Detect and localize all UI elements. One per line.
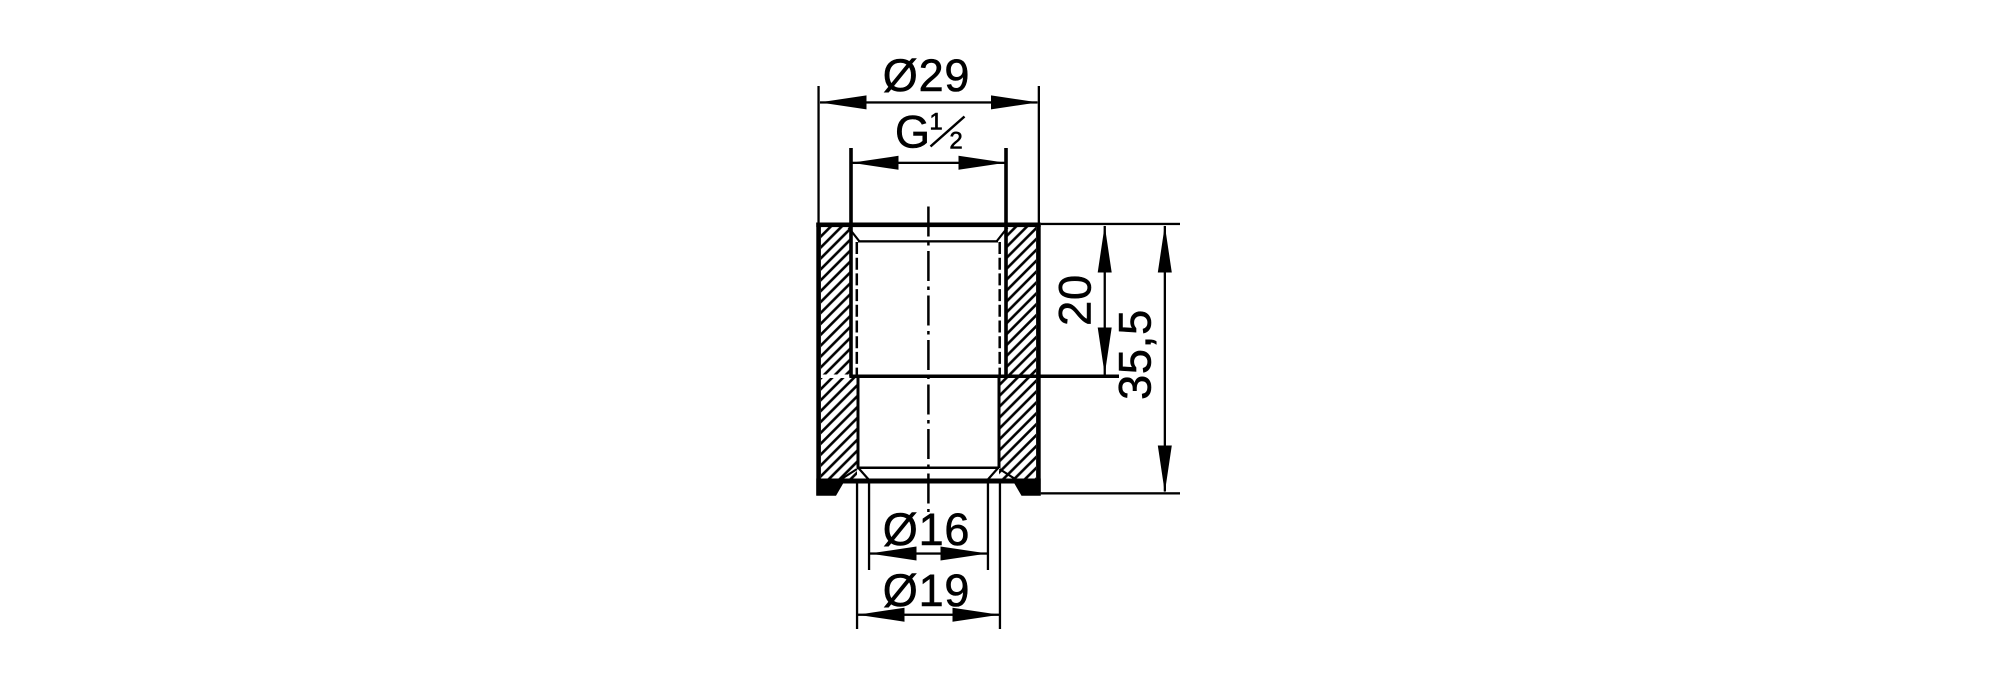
thread minor dashed line right xyxy=(998,242,1001,375)
svg-text:G: G xyxy=(895,107,930,158)
dim 35.5 arrow up xyxy=(1158,226,1172,273)
hatch right wall lower xyxy=(999,378,1036,479)
svg-text:Ø29: Ø29 xyxy=(883,50,970,101)
dim 35.5 line xyxy=(1164,226,1166,492)
svg-text:Ø16: Ø16 xyxy=(883,504,970,555)
bottom chamfer X left outer xyxy=(836,469,857,483)
thread major line left (with G1/2 extension above) xyxy=(849,148,853,377)
svg-text:1: 1 xyxy=(929,109,942,136)
dim 20 arrow down xyxy=(1098,328,1112,375)
dim 35.5 bottom extension line xyxy=(1041,492,1180,494)
dim Ø29 extension line right xyxy=(1038,86,1040,223)
lower bore wall left xyxy=(857,378,860,468)
dim 35.5 arrow down xyxy=(1158,446,1172,493)
body outer wall right xyxy=(1036,223,1041,496)
dim 20/35.5 top extension line xyxy=(1041,223,1180,225)
dim Ø16 extension line left xyxy=(868,484,870,571)
hatch left wall upper xyxy=(821,227,850,375)
lower bore wall right xyxy=(998,378,1001,468)
dim 20 line xyxy=(1104,226,1106,375)
dim Ø19 extension line left xyxy=(856,484,858,630)
dim Ø29 extension line left xyxy=(817,86,819,223)
thread bottom line with 20-dim extension xyxy=(849,375,1119,379)
thread chamfer diagonal left xyxy=(849,228,860,242)
thread chamfer edge line xyxy=(858,240,998,242)
bottom foot right xyxy=(1012,479,1041,496)
dim G1/2 fraction slash xyxy=(931,117,965,147)
dim Ø16 line xyxy=(870,552,987,554)
bottom chamfer X right outer xyxy=(1000,469,1021,483)
dim Ø29 line xyxy=(820,101,1038,103)
dim G1/2 arrow right xyxy=(959,156,1006,170)
thread minor dashed line left xyxy=(856,242,859,375)
hatch right wall upper xyxy=(1006,227,1036,375)
svg-text:2: 2 xyxy=(949,128,962,155)
svg-text:35,5: 35,5 xyxy=(1110,309,1161,400)
dim Ø19 arrow right xyxy=(953,608,1000,622)
bottom recess edge line xyxy=(857,467,999,470)
bottom chamfer X right inner xyxy=(987,468,999,481)
dim Ø19 arrow left xyxy=(858,608,905,622)
dim Ø16 arrow left xyxy=(870,547,917,561)
svg-text:Ø19: Ø19 xyxy=(883,565,970,616)
dim G1/2 line xyxy=(852,162,1005,164)
center line xyxy=(927,207,930,513)
dim 20 arrow up xyxy=(1098,226,1112,273)
thread chamfer diagonal right xyxy=(997,228,1008,242)
dim Ø16 extension line right xyxy=(987,484,989,571)
dim Ø16 arrow right xyxy=(941,547,988,561)
svg-text:20: 20 xyxy=(1050,274,1101,326)
hatch left wall lower xyxy=(821,378,857,479)
dim G1/2 arrow left xyxy=(852,156,899,170)
bottom face bar xyxy=(842,479,1015,484)
dim Ø29 arrow left xyxy=(820,95,867,109)
dim Ø19 line xyxy=(858,614,999,616)
thread major line right (with G1/2 extension above) xyxy=(1004,148,1008,377)
body top face xyxy=(816,223,1040,228)
bottom foot left xyxy=(816,479,846,496)
dim Ø19 extension line right xyxy=(999,484,1001,630)
bottom chamfer X left inner xyxy=(858,468,870,481)
body outer wall left xyxy=(816,223,821,496)
dim Ø29 arrow right xyxy=(991,95,1038,109)
